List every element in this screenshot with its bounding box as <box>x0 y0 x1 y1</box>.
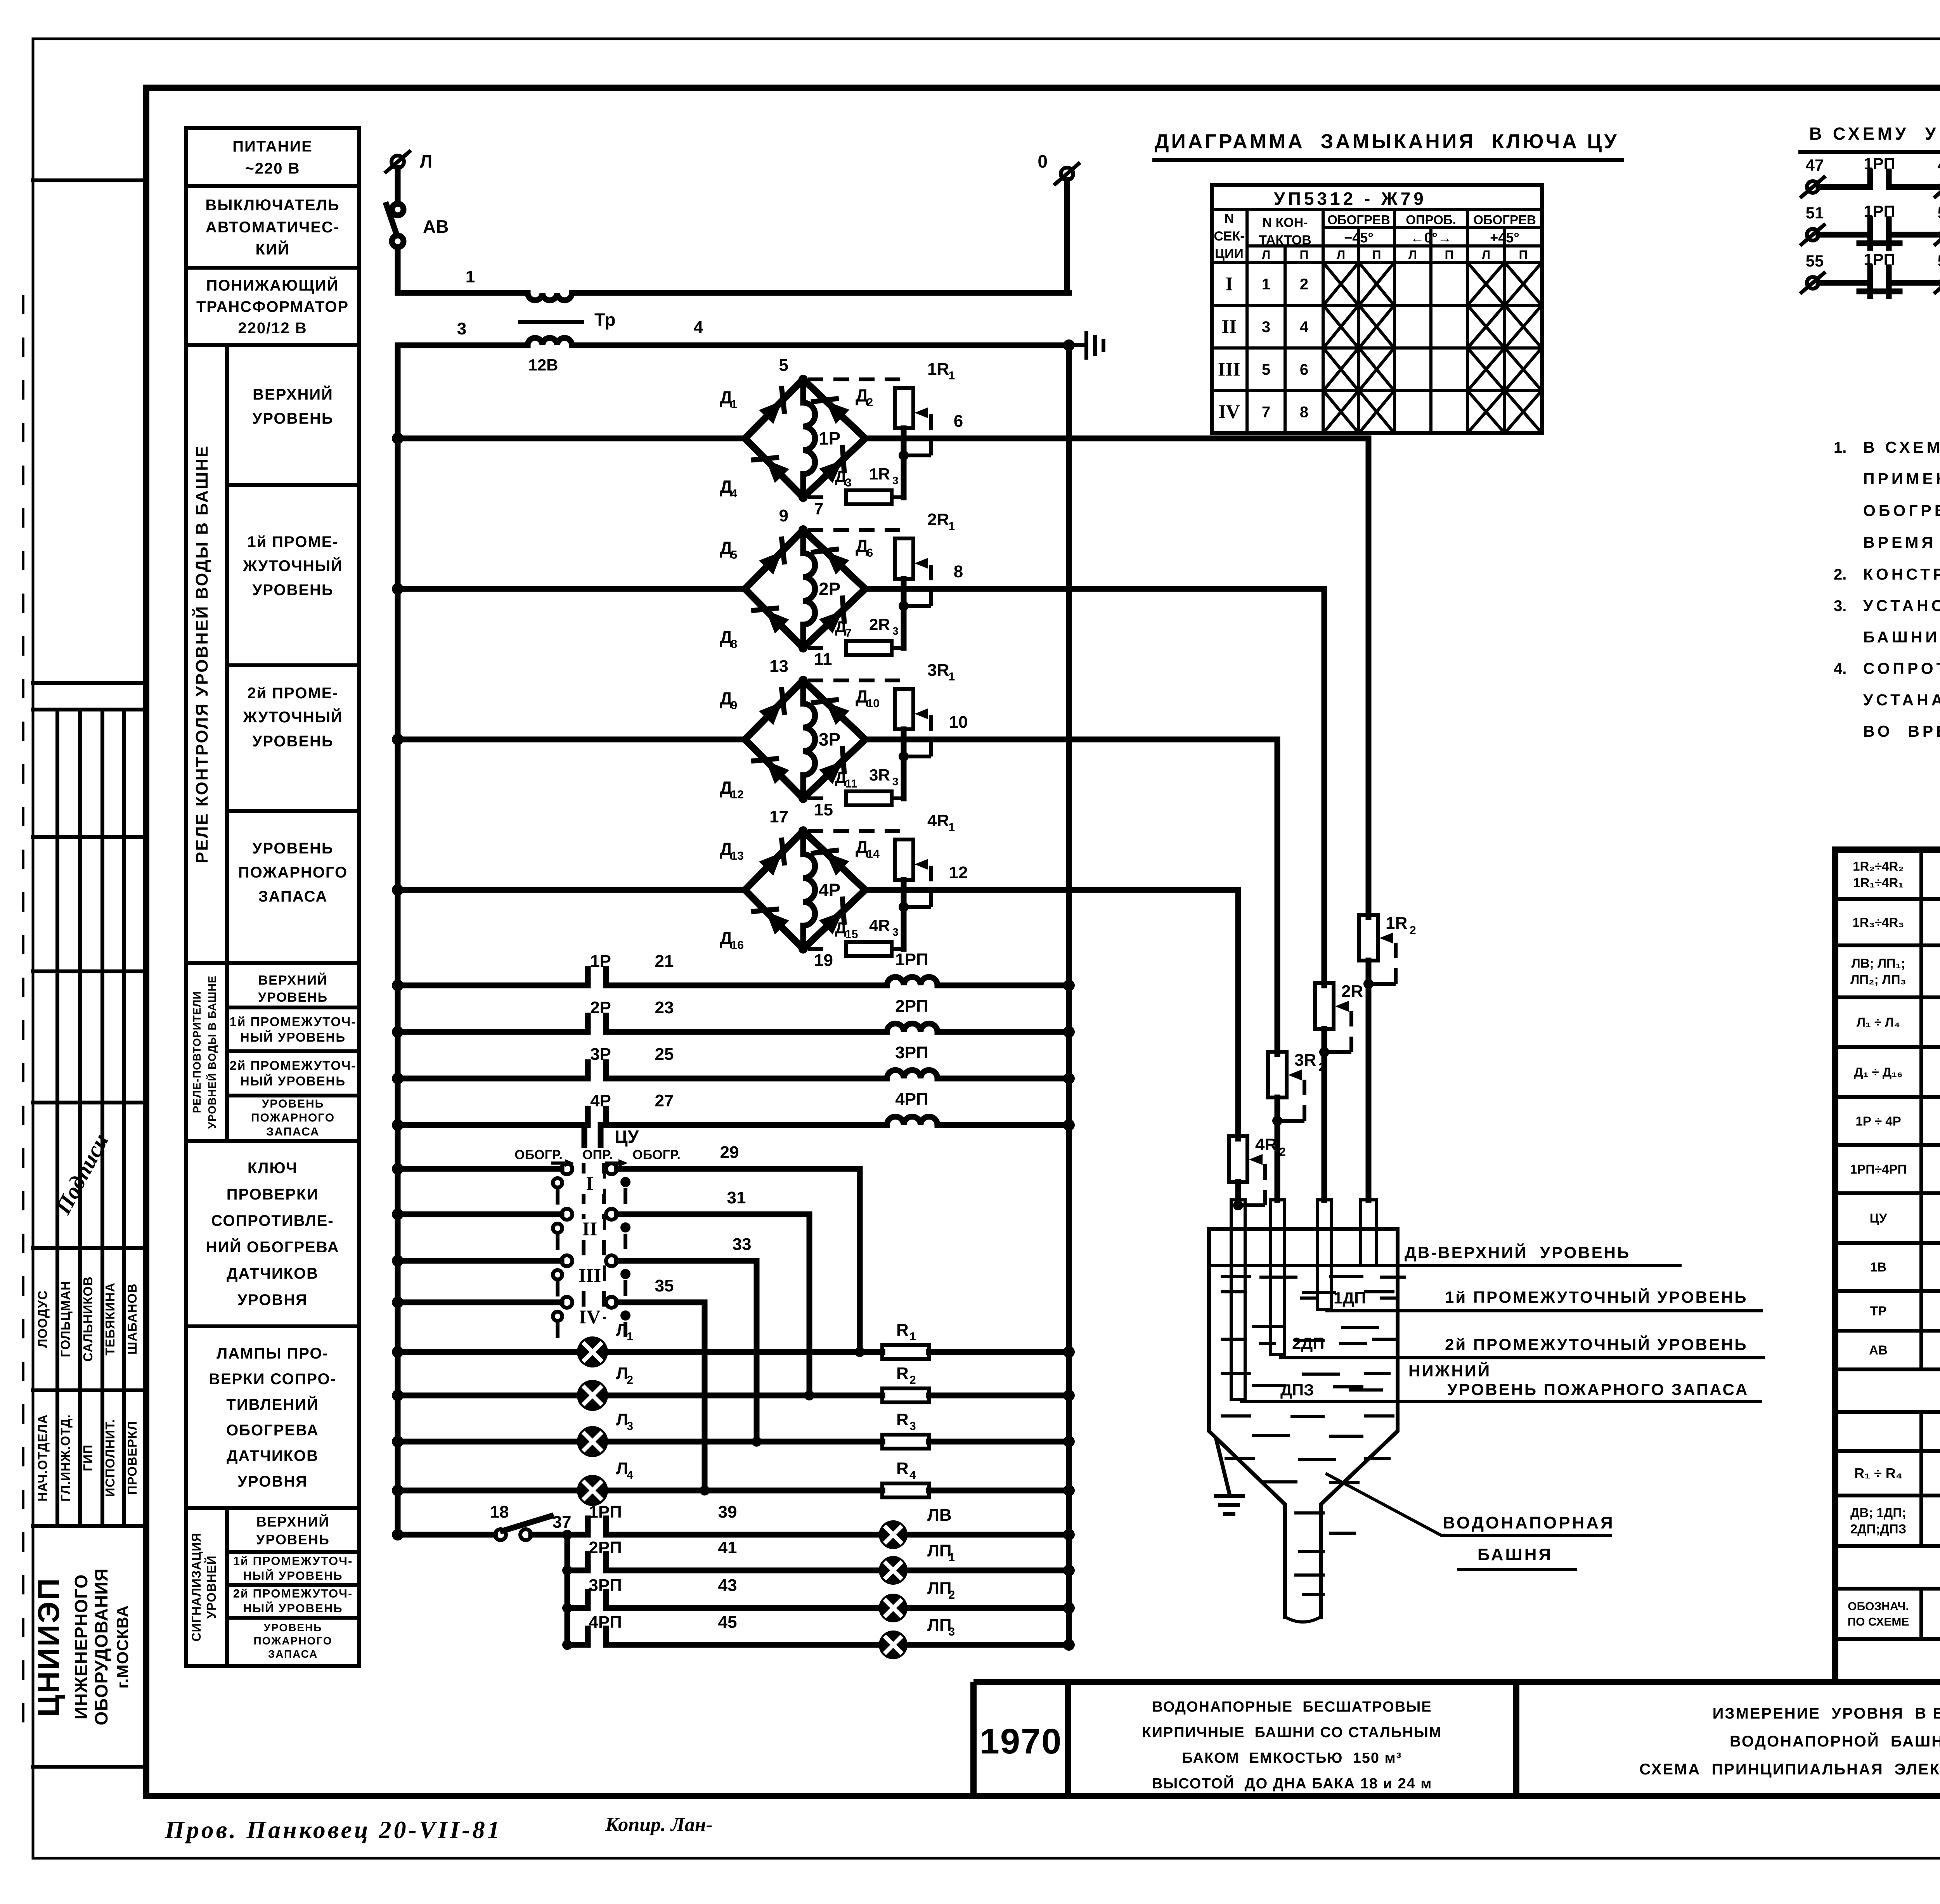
svg-text:2РП: 2РП <box>895 997 928 1016</box>
svg-text:23: 23 <box>655 998 674 1017</box>
svg-text:ИСПОЛНИТ.: ИСПОЛНИТ. <box>103 1419 117 1497</box>
relay coil 3Р <box>803 680 815 798</box>
svg-text:27: 27 <box>655 1091 674 1110</box>
svg-text:ЦУ: ЦУ <box>615 1127 639 1147</box>
svg-text:R: R <box>896 1321 909 1340</box>
svg-text:9: 9 <box>731 699 738 712</box>
svg-text:19: 19 <box>814 951 833 970</box>
svg-text:29: 29 <box>720 1143 739 1162</box>
contact 1РП terminals 47-49 <box>1807 181 1819 193</box>
svg-text:В СХЕМУ УПРАВЛЕНИЯ ХОЗПРОТИВ: В СХЕМУ УПРАВЛЕНИЯ ХОЗПРОТИВОПОЖАРНЫМИ А… <box>1809 124 1940 144</box>
node 5 <box>799 375 808 384</box>
wire 35 <box>617 1300 705 1305</box>
label Верхний уровень (реле) <box>227 483 359 487</box>
svg-text:ИЗМЕРЕНИЕ УРОВНЯ В БАКЕ: ИЗМЕРЕНИЕ УРОВНЯ В БАКЕ <box>1713 1705 1940 1722</box>
svg-text:←0°→: ←0°→ <box>1410 230 1452 246</box>
svg-text:5: 5 <box>1262 361 1270 378</box>
svg-text:ВЕРХНИЙ: ВЕРХНИЙ <box>256 1513 329 1530</box>
svg-text:N КОН-: N КОН- <box>1262 215 1308 230</box>
svg-text:4Р: 4Р <box>819 880 840 900</box>
svg-text:15: 15 <box>845 928 858 941</box>
diagram table grid <box>1212 185 1542 433</box>
svg-text:П: П <box>1519 248 1528 262</box>
diode Д4 <box>766 460 789 483</box>
svg-text:ПО СХЕМЕ: ПО СХЕМЕ <box>1848 1616 1909 1629</box>
svg-text:ЛАМПЫ ПРО-: ЛАМПЫ ПРО- <box>217 1345 329 1362</box>
row lamp Л3 resistor R3 <box>392 1436 404 1447</box>
svg-text:2: 2 <box>1365 992 1372 1005</box>
svg-text:2: 2 <box>1300 276 1308 293</box>
svg-text:14: 14 <box>867 848 880 860</box>
svg-text:3: 3 <box>1262 318 1270 336</box>
diode Д16 <box>766 911 789 935</box>
svg-text:2ДП;ДПЗ: 2ДП;ДПЗ <box>1850 1522 1906 1536</box>
svg-text:1й ПРОМЕЖУТОЧ-: 1й ПРОМЕЖУТОЧ- <box>233 1554 353 1568</box>
svg-text:2ДП: 2ДП <box>1292 1334 1324 1352</box>
svg-text:ГЛ.ИНЖ.ОТД.: ГЛ.ИНЖ.ОТД. <box>58 1414 73 1501</box>
svg-text:12: 12 <box>731 788 744 801</box>
svg-text:4РП: 4РП <box>895 1090 928 1109</box>
switch ЦУ wiper arrows <box>553 1161 567 1165</box>
diode bridge 4Р frame <box>745 831 865 949</box>
svg-text:16: 16 <box>731 939 744 952</box>
switch ЦУ section III <box>392 1255 404 1267</box>
diode Д3 (bottom right) <box>819 460 843 483</box>
diode Д12 <box>766 761 789 784</box>
svg-text:R: R <box>896 1459 909 1478</box>
svg-text:ВО ВРЕМЯ НАЛАДКИ.: ВО ВРЕМЯ НАЛАДКИ. <box>1863 722 1940 740</box>
sensor tube ДВ <box>1361 1200 1376 1265</box>
svg-text:НЫЙ УРОВЕНЬ: НЫЙ УРОВЕНЬ <box>240 1073 346 1088</box>
svg-text:4R: 4R <box>869 916 890 935</box>
svg-text:ПРОВЕРКЛ: ПРОВЕРКЛ <box>125 1421 139 1495</box>
svg-text:САЛЬНИКОВ: САЛЬНИКОВ <box>81 1276 95 1362</box>
svg-text:П: П <box>1372 248 1381 262</box>
svg-text:2.: 2. <box>1834 566 1846 583</box>
row contact 3Р wire 25 coil 3РП <box>392 1073 404 1084</box>
svg-text:ОПРОБ.: ОПРОБ. <box>1406 213 1456 227</box>
svg-text:7: 7 <box>845 627 852 640</box>
contact 1РП terminals 55-57 <box>1807 277 1819 289</box>
svg-text:2Р: 2Р <box>590 998 611 1017</box>
svg-text:49: 49 <box>1938 156 1940 174</box>
resistor 2R3 with diode Д7 label <box>808 646 831 650</box>
svg-text:ДАТЧИКОВ: ДАТЧИКОВ <box>227 1265 319 1282</box>
wire 37 node <box>531 1532 588 1538</box>
svg-text:Л: Л <box>1482 248 1490 262</box>
svg-text:П: П <box>1445 248 1454 262</box>
svg-text:2: 2 <box>627 1374 633 1386</box>
svg-text:3R: 3R <box>869 766 890 784</box>
svg-text:3: 3 <box>845 476 852 489</box>
svg-text:ОБОРУДОВАНИЯ: ОБОРУДОВАНИЯ <box>91 1568 111 1725</box>
svg-text:6: 6 <box>867 547 873 559</box>
svg-text:3: 3 <box>892 625 899 637</box>
svg-text:ГОЛЬЦМАН: ГОЛЬЦМАН <box>58 1281 73 1357</box>
svg-text:II: II <box>1222 315 1237 337</box>
row contact 2Р wire 23 coil 2РП <box>392 1026 404 1038</box>
svg-text:Л: Л <box>616 1364 628 1383</box>
diode Д11 (bottom right) <box>819 761 843 784</box>
label 2й промежуточный (повторители) <box>227 1094 359 1097</box>
svg-text:2: 2 <box>949 1589 955 1601</box>
svg-text:ВРЕМЯ РЕЗИСТОРАМИ R₁ ÷ R₄.: ВРЕМЯ РЕЗИСТОРАМИ R₁ ÷ R₄. <box>1863 533 1940 551</box>
group Реле контроля уровней воды в башне <box>186 345 359 963</box>
svg-text:ЦУ: ЦУ <box>1870 1211 1887 1225</box>
sensor feed vertical 2-й датчик <box>1322 589 1327 985</box>
terminal 0 <box>1061 168 1073 180</box>
junction dot wire4 / right bus <box>1063 339 1075 351</box>
svg-text:3.: 3. <box>1834 597 1846 614</box>
svg-text:ЛП: ЛП <box>927 1541 952 1560</box>
wire bus to bridge 4Р <box>392 884 404 896</box>
row contact 2РП wire 41 lamp ЛП1 <box>562 1565 572 1575</box>
svg-text:ТЕБЯКИНА: ТЕБЯКИНА <box>103 1283 117 1355</box>
resistor 2R1 (dashed mounted) <box>808 528 904 532</box>
row lamp Л2 resistor R2 <box>392 1390 404 1401</box>
svg-text:2R: 2R <box>927 510 949 529</box>
label Водонапорная башня with leader <box>1327 1474 1610 1535</box>
node 15 <box>799 794 808 803</box>
diode Д9 <box>759 702 782 725</box>
svg-text:ВЫКЛЮЧАТЕЛЬ: ВЫКЛЮЧАТЕЛЬ <box>205 197 339 214</box>
svg-text:Л: Л <box>616 1459 628 1478</box>
svg-text:УСТАНАВЛИВАЮТСЯ ПРИ НЕОБХОД: УСТАНАВЛИВАЮТСЯ ПРИ НЕОБХОДИМОСТИ <box>1863 691 1940 709</box>
svg-text:ПРИМЕНЯЮТСЯ ДАТЧИКИ УРОВНЯ: ПРИМЕНЯЮТСЯ ДАТЧИКИ УРОВНЯ С ОБОГРЕВОМ. <box>1863 470 1940 488</box>
svg-text:4: 4 <box>694 318 703 337</box>
svg-text:1R: 1R <box>869 465 890 483</box>
row contact 1Р wire 21 coil 1РП <box>392 980 404 991</box>
svg-text:1R: 1R <box>1386 914 1407 933</box>
svg-text:КОНСТРУКЦИЮ ДАТЧИКА УРОВНЯ: КОНСТРУКЦИЮ ДАТЧИКА УРОВНЯ СМ. НА ЧЕРТ. … <box>1863 565 1940 583</box>
svg-text:В СХЕМЕ РЕГУЛИРОВАНИЯ УРОВНЯ: В СХЕМЕ РЕГУЛИРОВАНИЯ УРОВНЯ ВОДЫ В БАШН… <box>1863 438 1940 456</box>
water hatching <box>1222 1275 1249 1278</box>
svg-text:4R: 4R <box>1255 1135 1277 1154</box>
wire 33 <box>617 1258 757 1264</box>
svg-text:III: III <box>579 1264 601 1286</box>
svg-text:ВЕРХНИЙ: ВЕРХНИЙ <box>253 385 333 403</box>
group Сигнализация уровней <box>186 1508 359 1666</box>
wire 10 <box>865 737 1277 743</box>
svg-text:ПОЖАРНОГО: ПОЖАРНОГО <box>238 864 348 881</box>
svg-text:−45°: −45° <box>1344 230 1373 246</box>
label box Лампы проверки сопротивлений <box>186 1326 359 1508</box>
svg-text:2Р: 2Р <box>819 579 840 599</box>
svg-text:Д₁ ÷ Д₁₆: Д₁ ÷ Д₁₆ <box>1854 1065 1903 1079</box>
svg-text:9: 9 <box>779 506 788 525</box>
water tower tank <box>1209 1227 1398 1231</box>
svg-text:3: 3 <box>892 926 899 938</box>
svg-text:III: III <box>1218 358 1240 380</box>
svg-text:УРОВНЯ: УРОВНЯ <box>237 1473 308 1490</box>
svg-text:УРОВЕНЬ ПОЖАРНОГО ЗАПАСА: УРОВЕНЬ ПОЖАРНОГО ЗАПАСА <box>1447 1380 1749 1399</box>
svg-text:БАШНИ СМ. ЧЕРТ. АВ-15.: БАШНИ СМ. ЧЕРТ. АВ-15. <box>1863 628 1940 646</box>
svg-text:43: 43 <box>718 1576 737 1595</box>
svg-text:2R: 2R <box>1341 982 1363 1001</box>
wire АВ down to node 1 <box>395 247 401 293</box>
svg-text:УРОВНЯ: УРОВНЯ <box>237 1291 308 1309</box>
left margin strip dividers <box>33 178 146 182</box>
resistor 3R2 (dashed mounted) <box>1268 1052 1287 1097</box>
diode Д5 <box>759 551 782 575</box>
svg-text:ДПЗ: ДПЗ <box>1280 1381 1314 1399</box>
svg-text:Л₁ ÷ Л₄: Л₁ ÷ Л₄ <box>1857 1015 1900 1030</box>
sensor tube 2ДП <box>1270 1200 1284 1355</box>
diode Д8 <box>766 610 789 634</box>
wire 1 <box>398 290 528 296</box>
svg-text:Тр: Тр <box>594 310 615 330</box>
svg-text:ПОНИЖАЮЩИЙ: ПОНИЖАЮЩИЙ <box>206 276 339 294</box>
node 17 <box>799 826 808 836</box>
svg-text:РЕЛЕ КОНТРОЛЯ УРОВНЕЙ ВОДЫ В Б: РЕЛЕ КОНТРОЛЯ УРОВНЕЙ ВОДЫ В БАШНЕ <box>192 445 211 864</box>
node 11 <box>799 643 808 653</box>
svg-text:НЫЙ УРОВЕНЬ: НЫЙ УРОВЕНЬ <box>240 1030 346 1044</box>
svg-text:НИЖНИЙ: НИЖНИЙ <box>1408 1361 1491 1380</box>
tank ground <box>1216 1440 1229 1493</box>
svg-text:1: 1 <box>949 520 955 533</box>
svg-text:1R₂÷4R₂: 1R₂÷4R₂ <box>1853 859 1904 874</box>
svg-text:ВОДОНАПОРНОЙ БАШНИ.: ВОДОНАПОРНОЙ БАШНИ. <box>1730 1732 1940 1750</box>
label box Понижающий трансформатор <box>186 268 359 345</box>
svg-text:ДАТЧИКОВ: ДАТЧИКОВ <box>227 1447 319 1464</box>
svg-text:2РП: 2РП <box>589 1538 622 1557</box>
svg-text:1: 1 <box>1262 276 1270 293</box>
wire bus to bridge 1Р <box>392 433 404 444</box>
svg-text:17: 17 <box>769 807 788 826</box>
svg-text:ЛООДУС: ЛООДУС <box>35 1290 50 1348</box>
svg-text:ДВ-ВЕРХНИЙ УРОВЕНЬ: ДВ-ВЕРХНИЙ УРОВЕНЬ <box>1405 1243 1630 1262</box>
svg-text:3РП: 3РП <box>589 1576 622 1595</box>
svg-text:УРОВЕНЬ: УРОВЕНЬ <box>258 990 328 1005</box>
equipment table grid <box>1835 850 1940 1682</box>
svg-text:2: 2 <box>1410 924 1416 937</box>
svg-text:1й ПРОМЕЖУТОЧНЫЙ УРОВЕНЬ: 1й ПРОМЕЖУТОЧНЫЙ УРОВЕНЬ <box>1445 1288 1748 1306</box>
svg-text:3Р: 3Р <box>590 1045 611 1064</box>
svg-text:ТР: ТР <box>1870 1304 1886 1318</box>
diode bridge 2Р frame <box>745 530 865 648</box>
svg-text:2й ПРОМЕЖУТОЧ-: 2й ПРОМЕЖУТОЧ- <box>233 1587 353 1600</box>
svg-text:НЫЙ УРОВЕНЬ: НЫЙ УРОВЕНЬ <box>243 1601 343 1615</box>
svg-text:1РП: 1РП <box>589 1502 622 1521</box>
svg-text:47: 47 <box>1806 156 1824 174</box>
sensor feed vertical 3-й датчик <box>1275 739 1280 1054</box>
svg-text:РЕЛЕ-ПОВТОРИТЕЛИ: РЕЛЕ-ПОВТОРИТЕЛИ <box>191 991 203 1113</box>
row contact 3РП wire 43 lamp ЛП2 <box>562 1603 572 1613</box>
wire 29 <box>617 1166 860 1172</box>
svg-text:ВЫСОТОЙ ДО ДНА БАКА 18 и 24 м: ВЫСОТОЙ ДО ДНА БАКА 18 и 24 м <box>1152 1774 1432 1792</box>
svg-text:55: 55 <box>1806 252 1824 270</box>
svg-text:ПРОВЕРКИ: ПРОВЕРКИ <box>227 1186 319 1203</box>
svg-text:ТРАНСФОРМАТОР: ТРАНСФОРМАТОР <box>196 298 349 315</box>
svg-text:Л: Л <box>1262 248 1270 262</box>
svg-text:НЫЙ УРОВЕНЬ: НЫЙ УРОВЕНЬ <box>243 1568 343 1582</box>
svg-text:3: 3 <box>457 319 466 338</box>
svg-text:1Р ÷ 4Р: 1Р ÷ 4Р <box>1855 1114 1901 1129</box>
label box Питание ~220В <box>186 128 359 186</box>
svg-text:11: 11 <box>814 650 832 669</box>
diode Д10 <box>826 702 849 725</box>
switch ЦУ linkage dashed <box>582 1163 585 1319</box>
svg-text:4РП: 4РП <box>589 1613 622 1632</box>
left trim dashed line <box>22 295 24 1722</box>
svg-text:УРОВНЕЙ: УРОВНЕЙ <box>204 1555 218 1618</box>
svg-text:УРОВЕНЬ: УРОВЕНЬ <box>252 410 333 427</box>
svg-text:10: 10 <box>949 713 968 732</box>
svg-text:ОБОГРЕВ: ОБОГРЕВ <box>1473 213 1536 227</box>
svg-text:7: 7 <box>814 499 823 518</box>
title block frame <box>973 1679 1940 1685</box>
right bus <box>1066 345 1072 1645</box>
svg-text:15: 15 <box>814 800 833 819</box>
svg-text:ОБОГРЕВ ДАТЧИКОВ ПРОИЗВОДИТС: ОБОГРЕВ ДАТЧИКОВ ПРОИЗВОДИТСЯ В ЗИМНЕЕ <box>1863 502 1940 519</box>
group Реле-повторители уровней воды в башне <box>186 963 359 1141</box>
feeder vertical for РП contacts <box>565 1535 570 1645</box>
label box Выключатель автоматический <box>186 186 359 268</box>
svg-text:П: П <box>1300 248 1309 262</box>
label 1й промежуточный (сигнализация) <box>227 1583 359 1587</box>
label 2й промежуточный (сигнализация) <box>227 1616 359 1620</box>
svg-text:ЗАПАСА: ЗАПАСА <box>258 888 328 905</box>
svg-text:1В: 1В <box>1870 1260 1886 1274</box>
contact 1РП terminals 51-53 <box>1807 229 1819 241</box>
ground symbol <box>1069 343 1086 347</box>
svg-text:31: 31 <box>727 1188 746 1207</box>
svg-text:1: 1 <box>909 1330 916 1343</box>
svg-text:КИРПИЧНЫЕ БАШНИ СО СТАЛЬНЫМ: КИРПИЧНЫЕ БАШНИ СО СТАЛЬНЫМ <box>1142 1724 1442 1741</box>
svg-text:4: 4 <box>627 1469 633 1482</box>
svg-text:УРОВЕНЬ: УРОВЕНЬ <box>252 733 333 750</box>
svg-text:ВОДОНАПОРНАЯ: ВОДОНАПОРНАЯ <box>1443 1513 1614 1532</box>
svg-text:IV: IV <box>579 1306 601 1328</box>
resistor 1R1 (dashed mounted) <box>808 377 904 381</box>
svg-text:10: 10 <box>867 697 880 710</box>
svg-text:СЕК-: СЕК- <box>1214 229 1244 244</box>
node 7 <box>799 493 808 502</box>
diode Д7 (bottom right) <box>819 611 843 634</box>
svg-text:3: 3 <box>892 474 899 486</box>
svg-text:Копир. Лан-: Копир. Лан- <box>605 1814 713 1836</box>
svg-text:3: 3 <box>949 1625 955 1638</box>
svg-text:УРОВНЕЙ ВОДЫ В БАШНЕ: УРОВНЕЙ ВОДЫ В БАШНЕ <box>206 976 218 1129</box>
wire 2 <box>572 290 1069 296</box>
label 1й промежуточный уровень (реле) <box>227 663 359 667</box>
svg-text:2: 2 <box>909 1374 916 1386</box>
wire 31 <box>617 1212 809 1217</box>
switch ЦУ section II <box>392 1208 404 1220</box>
svg-text:ПИТАНИЕ: ПИТАНИЕ <box>232 138 313 155</box>
svg-text:ЛВ: ЛВ <box>927 1506 952 1525</box>
svg-text:ШАБАНОВ: ШАБАНОВ <box>125 1283 139 1355</box>
resistor 1R2 (dashed mounted) <box>1359 915 1378 961</box>
sensor tube ДПЗ <box>1231 1200 1245 1400</box>
svg-text:3Р: 3Р <box>819 729 840 749</box>
svg-text:ПОЖАРНОГО: ПОЖАРНОГО <box>251 1111 335 1124</box>
svg-text:7: 7 <box>1262 404 1270 421</box>
svg-text:ЛП₂; ЛП₃: ЛП₂; ЛП₃ <box>1850 973 1906 987</box>
svg-text:КЛЮЧ: КЛЮЧ <box>248 1160 298 1177</box>
svg-text:33: 33 <box>733 1235 752 1254</box>
svg-text:ОПР.: ОПР. <box>582 1148 613 1162</box>
diode bridge 1Р frame <box>745 379 865 497</box>
resistor 1R3 with diode Д3 label <box>808 495 831 499</box>
svg-text:ЛП: ЛП <box>927 1616 952 1635</box>
wire 6 <box>865 436 1368 441</box>
svg-text:13: 13 <box>731 850 744 862</box>
diode Д14 <box>826 853 849 876</box>
svg-text:3R: 3R <box>1294 1051 1316 1070</box>
label Верхний уровень (повторители) <box>227 1006 359 1009</box>
svg-text:НАЧ.ОТДЕЛА: НАЧ.ОТДЕЛА <box>35 1414 50 1501</box>
svg-text:Л: Л <box>1337 248 1345 262</box>
node 13 <box>799 676 808 685</box>
terminal Л <box>391 156 404 168</box>
label 1й промежуточный (повторители) <box>227 1049 359 1053</box>
sensor tube 1ДП <box>1317 1200 1331 1309</box>
switch ЦУ section IV <box>392 1296 404 1308</box>
svg-text:12В: 12В <box>528 356 558 374</box>
svg-text:1: 1 <box>731 398 738 411</box>
svg-text:УРОВЕНЬ: УРОВЕНЬ <box>252 840 333 857</box>
svg-text:R: R <box>896 1410 909 1429</box>
svg-text:1: 1 <box>949 821 955 834</box>
svg-text:УРОВЕНЬ: УРОВЕНЬ <box>264 1622 322 1634</box>
svg-text:ЗАПАСА: ЗАПАСА <box>266 1125 319 1138</box>
svg-text:4: 4 <box>1300 318 1309 336</box>
svg-text:СИГНАЛИЗАЦИЯ: СИГНАЛИЗАЦИЯ <box>189 1533 203 1642</box>
relay coil 1Р <box>803 379 815 497</box>
row contact 4Р wire 27 coil 4РП <box>392 1119 404 1131</box>
svg-text:21: 21 <box>655 952 674 971</box>
svg-text:1970: 1970 <box>980 1722 1062 1761</box>
svg-text:I: I <box>1225 273 1233 294</box>
row contact 1РП wire 39 lamp ЛВ <box>585 1518 591 1535</box>
wire bus to bridge 2Р <box>392 583 404 595</box>
svg-text:1Р: 1Р <box>590 952 611 971</box>
svg-text:УСТАНОВКУ ДАТЧИКОВ В БАКЕ: УСТАНОВКУ ДАТЧИКОВ В БАКЕ ВОДОНАПОРНОЙ <box>1863 597 1940 614</box>
svg-text:1: 1 <box>949 670 955 683</box>
svg-text:8: 8 <box>1300 404 1308 421</box>
svg-text:АВ: АВ <box>423 216 449 237</box>
svg-text:ПОЖАРНОГО: ПОЖАРНОГО <box>253 1635 332 1647</box>
water level lines <box>1211 1264 1680 1267</box>
svg-text:220/12 В: 220/12 В <box>238 320 307 337</box>
svg-text:Л: Л <box>616 1321 628 1340</box>
svg-text:4.: 4. <box>1834 660 1846 677</box>
label box Ключ проверки сопротивлений <box>186 1141 359 1326</box>
wire 12 <box>865 887 1238 893</box>
svg-text:ЖУТОЧНЫЙ: ЖУТОЧНЫЙ <box>242 708 343 726</box>
svg-text:2R: 2R <box>869 615 890 634</box>
svg-text:Л: Л <box>1408 248 1417 262</box>
svg-text:5: 5 <box>731 549 738 561</box>
svg-text:ТАКТОВ: ТАКТОВ <box>1259 233 1311 248</box>
svg-text:БАШНЯ: БАШНЯ <box>1478 1545 1553 1564</box>
diode Д13 <box>759 852 782 876</box>
diode Д6 <box>826 552 849 575</box>
svg-text:СОПРОТИВЛЕ-: СОПРОТИВЛЕ- <box>211 1212 334 1229</box>
svg-text:НИЙ ОБОГРЕВА: НИЙ ОБОГРЕВА <box>206 1238 339 1256</box>
svg-text:г.МОСКВА: г.МОСКВА <box>113 1605 132 1688</box>
svg-text:УП5312 - Ж79: УП5312 - Ж79 <box>1274 189 1427 209</box>
svg-text:1: 1 <box>466 267 475 286</box>
svg-text:I: I <box>586 1172 593 1194</box>
label Верхний уровень (сигнализация) <box>227 1550 359 1554</box>
switch АВ <box>392 204 404 215</box>
wire 0 down <box>1064 180 1070 293</box>
sensor feed vertical 1-й датчик <box>1366 438 1372 917</box>
diode Д15 (bottom right) <box>819 912 843 935</box>
svg-text:41: 41 <box>718 1538 737 1557</box>
